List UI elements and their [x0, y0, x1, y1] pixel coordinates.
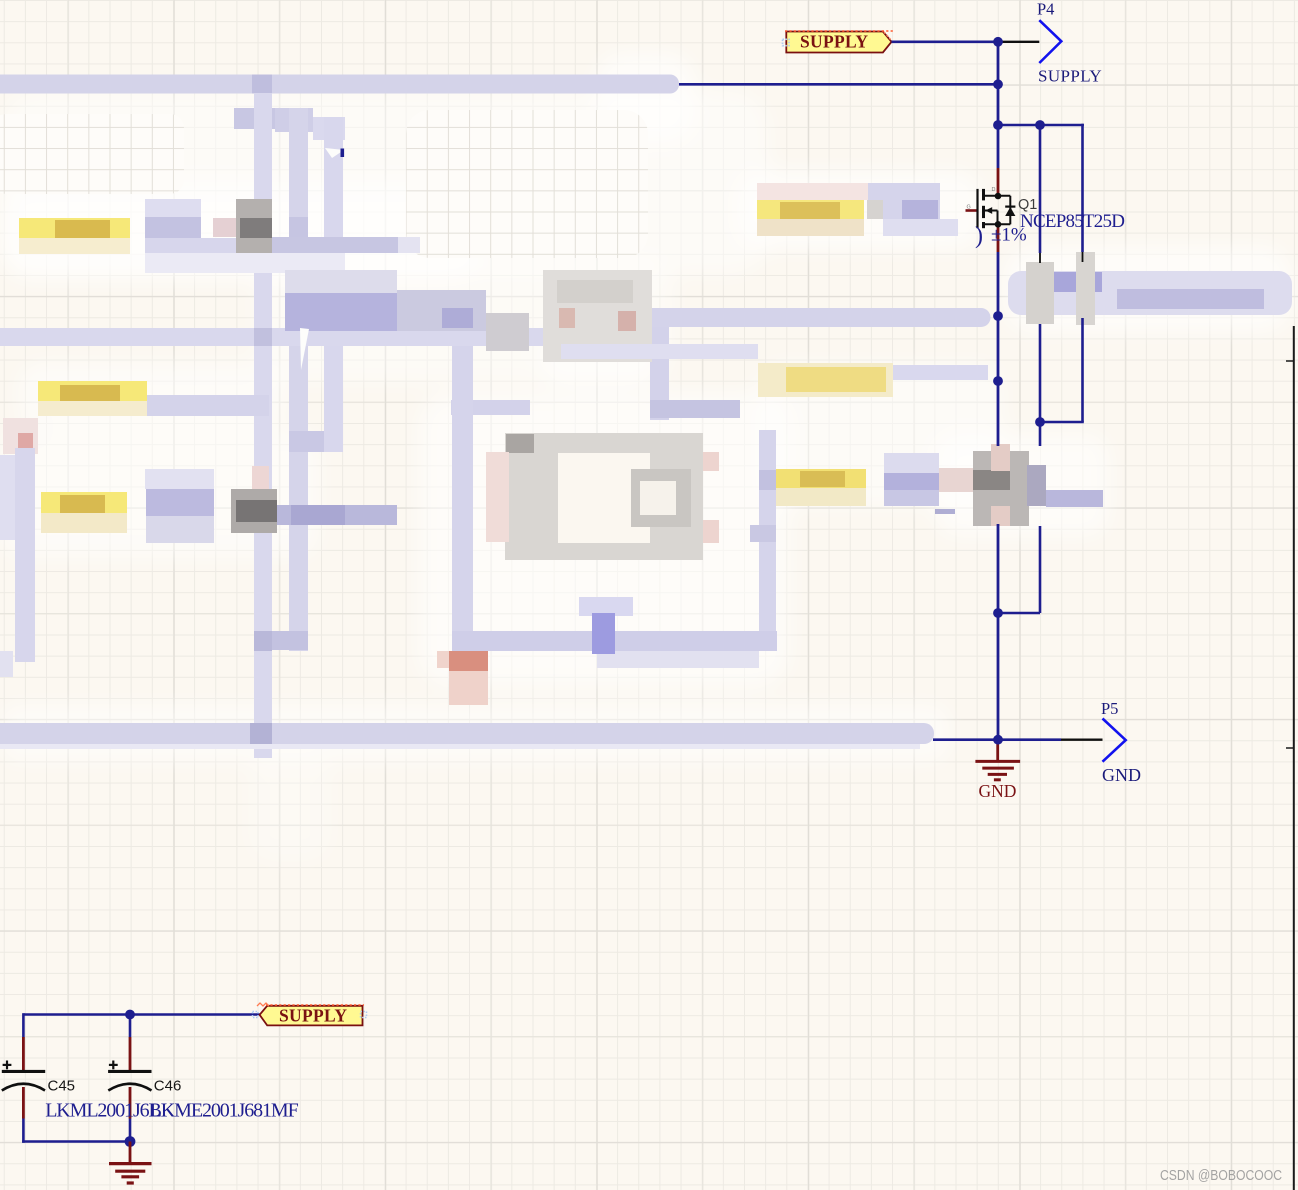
port P4	[1001, 0, 1102, 86]
capacitor C46	[108, 1037, 181, 1142]
blurred left vertical bus V0	[0, 418, 38, 662]
svg-text:): )	[975, 223, 983, 249]
power ground GND (cap group)	[109, 1142, 152, 1184]
svg-text:C46: C46	[154, 1078, 182, 1095]
svg-text:SUPPLY: SUPPLY	[1038, 67, 1102, 86]
svg-text:SUPPLY: SUPPLY	[279, 1005, 347, 1025]
wire source link y613	[998, 612, 1040, 615]
blurred right-middle bus bar	[1008, 252, 1292, 325]
svg-text:P5: P5	[1101, 699, 1118, 718]
blurred bus bar top	[0, 75, 679, 94]
svg-text:D: D	[992, 187, 996, 193]
svg-text:P4: P4	[1037, 0, 1054, 19]
wire SUPPLY flag to node	[892, 40, 999, 43]
watermark	[1160, 1168, 1282, 1184]
wire vertical x1082.5 + stub to x1040	[1040, 124, 1084, 422]
blurred net row2 right	[561, 344, 758, 359]
wire vertical x1040	[1039, 125, 1042, 613]
svg-text:±1%: ±1%	[991, 225, 1027, 246]
svg-text:GND: GND	[1102, 765, 1141, 785]
blurred resistor R-row1 right + cluster	[757, 183, 958, 236]
blurred resistor R-row3 right	[758, 363, 988, 397]
svg-text:G: G	[967, 205, 971, 211]
white cursor artefact	[300, 148, 344, 370]
blurred grey component mid	[543, 270, 652, 362]
blurred resistor R-row4 left + cluster	[41, 466, 397, 543]
svg-text:CSDN @BOBOCOOC: CSDN @BOBOCOOC	[1160, 1168, 1282, 1184]
wire horizontal y84	[679, 83, 998, 86]
sheet border right	[1286, 326, 1294, 1190]
power port SUPPLY (bottom flag)	[253, 1003, 367, 1025]
blurred horizontal net Y2a	[0, 270, 545, 351]
part number labels	[45, 1100, 299, 1122]
blurred vertical bus V4	[451, 308, 740, 420]
blurred resistor R-row4 right	[776, 453, 972, 514]
blurred horizontal net Y2b	[652, 308, 991, 327]
wire bottom link	[22, 1140, 130, 1143]
blurred loop left side	[452, 346, 473, 651]
junction dots (cap group)	[125, 1010, 136, 1147]
leftover value text	[975, 223, 1027, 249]
wire bottom y740	[933, 738, 1061, 741]
wire main vertical x998	[997, 42, 1000, 740]
power port SUPPLY (top)	[783, 31, 894, 53]
capacitor C45	[2, 1037, 75, 1143]
junction dots	[993, 37, 1045, 745]
svg-text:GND: GND	[979, 781, 1017, 801]
wire loop y125	[998, 124, 1084, 127]
wire SUPPLY (bottom)	[23, 1013, 259, 1037]
svg-text:SUPPLY: SUPPLY	[800, 32, 868, 52]
transistor Q1 NCEP85T25D	[966, 168, 1126, 252]
blurred loop bottom	[452, 597, 777, 668]
blurred vertical bus V1	[250, 93, 272, 758]
blurred resistor R-row1 left	[19, 218, 130, 254]
power ground GND (main)	[975, 743, 1020, 801]
grid patch centre	[406, 110, 648, 258]
grid patch top-left	[0, 114, 184, 194]
svg-text:NCEP85T25D: NCEP85T25D	[1020, 211, 1125, 232]
blurred transistor Q2 region	[939, 444, 1103, 526]
svg-text:C45: C45	[48, 1078, 76, 1095]
port P5	[1061, 699, 1141, 785]
blurred bottom bus bar	[0, 723, 934, 749]
blurred IC cluster row1 left	[145, 199, 420, 273]
blurred vertical bus V3	[324, 117, 343, 452]
blurred loop right side	[0, 430, 776, 677]
svg-text:LKME2001J681MF: LKME2001J681MF	[150, 1100, 299, 1122]
blurred wire hook below top bar	[234, 108, 345, 140]
blurred central transformer/IC	[486, 433, 719, 560]
blurred vertical bus V2	[272, 108, 343, 651]
blurred red component bottom-centre	[437, 651, 488, 705]
white halo washes under censored regions	[0, 52, 1292, 862]
blurred resistor R-row3 left	[38, 381, 269, 416]
